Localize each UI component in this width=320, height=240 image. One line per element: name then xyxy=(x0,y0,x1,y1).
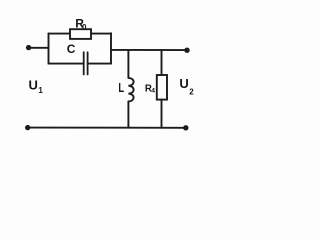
wire: top rail from block to output terminal xyxy=(111,49,186,51)
node: input terminal top (U1 +) xyxy=(26,45,31,50)
wire: bottom branch right of capacitor xyxy=(88,63,111,65)
svg-text:C: C xyxy=(67,42,76,56)
wire: input terminal to R0/C block xyxy=(29,47,49,49)
svg-text:U: U xyxy=(29,78,38,93)
wire: right vertical of R0/C parallel block xyxy=(110,33,112,63)
resistor R4 (box) xyxy=(157,75,167,100)
capacitor C plate left xyxy=(83,52,85,74)
label U2 xyxy=(179,76,194,96)
node: output terminal top (U2 +) xyxy=(184,48,189,53)
wire: Ra branch lower segment xyxy=(161,100,163,128)
svg-text:U: U xyxy=(179,76,188,91)
label R4 xyxy=(145,83,155,94)
wire: Ra branch upper segment xyxy=(161,50,163,75)
wire: bottom rail xyxy=(28,127,186,129)
label R0 xyxy=(75,16,87,32)
inductor L (coil) xyxy=(128,78,133,102)
capacitor C plate right xyxy=(87,52,89,74)
node: input terminal bottom (U1 -) xyxy=(25,125,30,130)
wire: left vertical of R0/C parallel block xyxy=(48,33,50,63)
wire: top branch through R0 xyxy=(49,33,112,35)
svg-text:0: 0 xyxy=(82,23,87,32)
svg-text:L: L xyxy=(118,82,124,96)
svg-text:2: 2 xyxy=(189,88,194,97)
resistor R0 (box) xyxy=(70,29,91,39)
svg-text:4: 4 xyxy=(151,88,155,95)
wire: L branch upper segment xyxy=(127,50,129,78)
wire: bottom branch left of capacitor xyxy=(49,63,84,65)
wire: L branch lower segment xyxy=(127,102,129,128)
svg-text:1: 1 xyxy=(38,86,43,95)
node: output terminal bottom (U2 -) xyxy=(183,125,188,130)
label U1 xyxy=(29,78,44,95)
